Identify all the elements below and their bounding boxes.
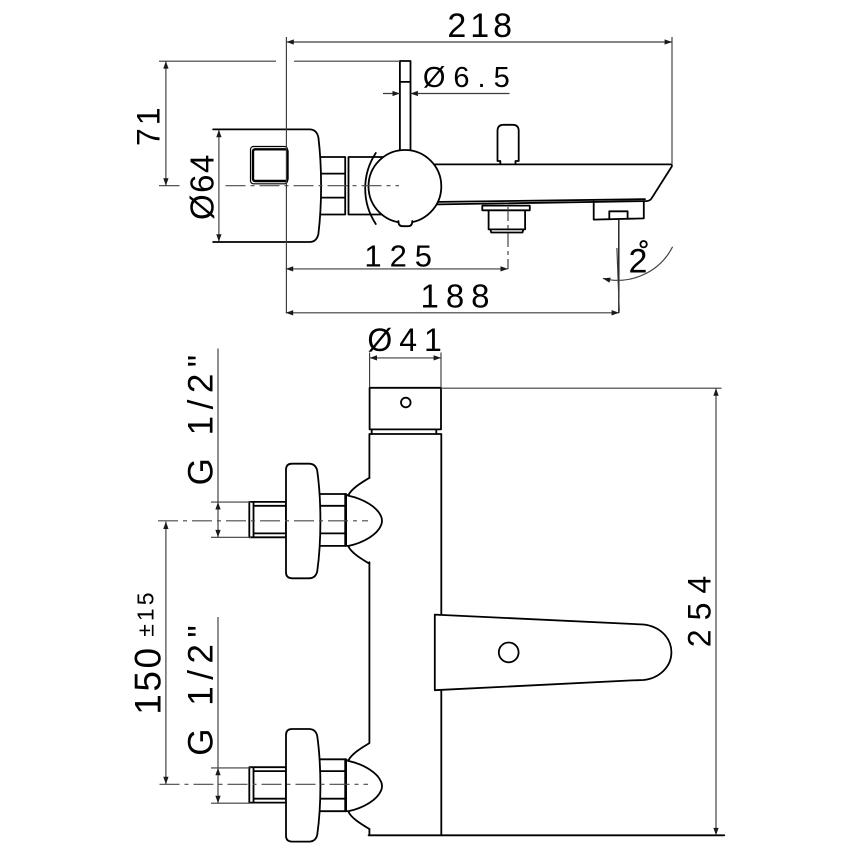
2 degree tilted line [617, 248, 619, 311]
cartridge block 1 (bands between escutcheon and body) [319, 157, 345, 215]
upper supply: wall escutcheon [286, 464, 320, 579]
2 degree arc [603, 247, 673, 280]
dimension diameter 64 line [218, 130, 220, 242]
svg-text:G 1/2": G 1/2" [182, 348, 221, 485]
lower supply: eccentric pipe G1/2 [249, 767, 286, 802]
upper supply: hex nut [319, 494, 347, 546]
extension aerator centerline [507, 207, 509, 269]
top view centerline [226, 185, 400, 187]
svg-text:G 1/2": G 1/2" [182, 619, 221, 756]
cap joint ring [372, 429, 437, 434]
dimension 125 line [286, 268, 508, 270]
254 top extension [441, 387, 722, 389]
svg-text:218: 218 [447, 7, 516, 45]
svg-text:125: 125 [364, 238, 440, 273]
handle end square [251, 147, 288, 184]
control knob circle [369, 150, 442, 223]
lower G 1/2 leader [211, 617, 251, 803]
extension line left (x=286) [285, 37, 287, 313]
dimension 71 line [165, 61, 167, 186]
extension line rod top [159, 60, 400, 62]
lower G 1/2 dimension [217, 768, 219, 803]
body bottom edge [369, 834, 725, 836]
spout underside back edge [430, 199, 645, 202]
dimension diameter 6.5 arrows [383, 93, 400, 95]
svg-text:150: 150 [128, 645, 169, 714]
cap screw hole [401, 398, 411, 408]
temperature lever rod [400, 61, 411, 160]
svg-text:2: 2 [629, 243, 648, 281]
dimension 254 [715, 388, 717, 835]
body main column [369, 434, 441, 835]
svg-text:Ø41: Ø41 [367, 322, 448, 358]
spout (bottom view) [435, 615, 672, 691]
svg-text:±15: ±15 [133, 589, 159, 636]
upper G 1/2 leader [211, 349, 251, 538]
lower supply: wall escutcheon [286, 729, 320, 842]
knob bottom tab [398, 221, 412, 226]
lower supply: connection dome [346, 743, 382, 829]
wall bracket at spout end [594, 201, 644, 219]
svg-text:71: 71 [131, 104, 167, 146]
spout body [400, 164, 672, 205]
lower centerline [160, 783, 369, 785]
lower supply: hex nut [319, 759, 347, 811]
spout screw hole [499, 643, 519, 663]
dimension 188 line [286, 312, 619, 314]
top cap [370, 388, 441, 430]
upper G 1/2 dimension [217, 502, 219, 537]
upper supply: connection dome [346, 478, 382, 564]
cartridge block 2 (body ring before knob) [349, 157, 391, 215]
upper centerline [158, 520, 368, 522]
escutcheon (wall flange, side view) [213, 129, 321, 242]
extension line right (x=672) [671, 37, 673, 164]
knob back edge arc [365, 153, 376, 224]
extension bracket center [618, 219, 620, 313]
aerator under spout [482, 206, 530, 233]
diverter knob on spout top [498, 125, 519, 165]
svg-text:188: 188 [420, 278, 496, 315]
centerline tick left [159, 185, 180, 187]
dimension 150 +-15 [165, 522, 167, 785]
dia41 extension lines [370, 353, 441, 388]
svg-text:254: 254 [682, 567, 718, 647]
svg-text:Ø6.5: Ø6.5 [423, 62, 518, 94]
svg-text:Ø64: Ø64 [184, 153, 221, 220]
upper supply: eccentric pipe G1/2 [249, 502, 286, 537]
dimension 218 line [286, 41, 672, 43]
dimension dia 41 [370, 357, 441, 359]
